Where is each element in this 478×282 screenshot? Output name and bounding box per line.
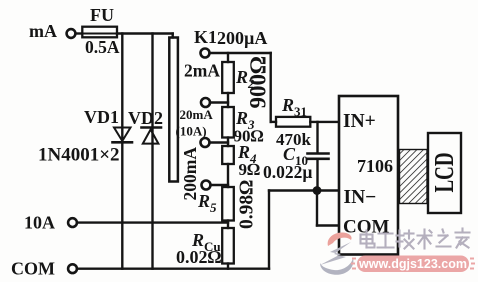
switch K1 wiper bar — [169, 38, 178, 182]
svg-text:200mA: 200mA — [180, 147, 200, 201]
wire R4-R5 junction — [227, 164, 229, 187]
wire VD2 branch vertical — [151, 34, 153, 269]
wire RCu bottom to rail — [227, 264, 229, 269]
char shu — [418, 230, 432, 249]
svg-text:0.5A: 0.5A — [85, 37, 120, 57]
char ji — [397, 231, 414, 249]
fuse FU mid line — [82, 33, 117, 35]
terminal 10A circle — [68, 218, 77, 227]
svg-text:20mA: 20mA — [180, 107, 214, 122]
svg-text:LCD: LCD — [430, 152, 460, 192]
svg-text:1N4001×2: 1N4001×2 — [38, 145, 120, 166]
wire cap to node B — [316, 159, 318, 191]
wire contact3 to R3-R4 junction — [209, 141, 228, 143]
diode VD2 (cathode up) — [142, 128, 162, 144]
wire contact1 to node A — [209, 52, 270, 54]
wire cap branch down — [316, 122, 318, 152]
watermark logo swirl — [320, 232, 353, 274]
switch contact 2mA — [201, 98, 210, 107]
display LCD box — [428, 133, 461, 213]
svg-text:900Ω: 900Ω — [246, 56, 271, 109]
svg-text:9Ω: 9Ω — [239, 160, 261, 179]
char dian — [361, 231, 375, 248]
capacitor C10 — [308, 154, 329, 159]
fuse FU body — [82, 27, 117, 38]
char gong — [378, 234, 394, 248]
svg-text:IN+: IN+ — [343, 111, 376, 132]
wire VD1 branch vertical — [121, 34, 123, 269]
svg-text:200µA: 200µA — [217, 28, 267, 48]
switch contact 200uA — [201, 49, 210, 58]
wire fuse to switch bar (top rail) — [117, 32, 173, 34]
char jia — [456, 229, 470, 248]
svg-text:0.022µ: 0.022µ — [263, 162, 312, 182]
resistor R4 — [222, 146, 234, 164]
op-amp IC 7106 box — [339, 96, 398, 255]
wire IN- horizontal — [269, 189, 338, 191]
connector hatched block — [400, 150, 428, 204]
wire node A vertical down to R31 — [270, 53, 272, 122]
resistor R5 — [222, 187, 234, 221]
wire mA terminal to fuse — [76, 32, 82, 34]
svg-text:R5: R5 — [197, 191, 217, 215]
wire node B down to COM pin — [316, 191, 318, 226]
svg-text:COM: COM — [11, 259, 55, 279]
diode VD1 (cathode down) — [113, 128, 133, 143]
wire bottom rail — [77, 268, 269, 270]
resistor RCu — [222, 228, 234, 264]
svg-text:VD2: VD2 — [128, 108, 163, 128]
wire R5-RCu junction — [227, 221, 229, 229]
resistor R3 — [222, 107, 234, 138]
svg-text:10A: 10A — [24, 213, 55, 233]
watermark url pill — [351, 256, 475, 273]
wire 10A to shunt junction — [77, 221, 228, 223]
node B junction dot — [313, 186, 322, 195]
svg-text:0.98Ω: 0.98Ω — [237, 180, 258, 229]
switch contact 10A — [201, 138, 210, 147]
wire to COM pin — [317, 224, 338, 226]
resistor R2 — [222, 62, 234, 93]
watermark text dian-gong-ji-shu-zhi-jia — [361, 229, 470, 249]
svg-text:0.02Ω: 0.02Ω — [176, 247, 222, 267]
switch contact 200mA — [202, 181, 211, 190]
resistor R31 — [276, 117, 310, 127]
svg-text:R31: R31 — [281, 95, 307, 119]
wire contact2 to R2-R3 junction — [210, 101, 228, 103]
svg-text:(10A): (10A) — [176, 124, 207, 139]
terminal COM circle — [68, 264, 77, 273]
svg-text:7106: 7106 — [357, 156, 393, 176]
wire into switch bar — [171, 34, 173, 38]
wire R2-R3 junction — [227, 93, 229, 107]
svg-text:www.dgjs123.com: www.dgjs123.com — [358, 257, 467, 271]
wire to R31 left — [271, 121, 276, 123]
wire R3-R4 junction — [227, 138, 229, 147]
svg-text:2mA: 2mA — [184, 61, 220, 81]
svg-text:IN−: IN− — [344, 187, 377, 208]
svg-text:FU: FU — [90, 5, 114, 25]
wire left vertical to bottom rail — [268, 191, 270, 269]
wire contact4 to R4-R5 junction — [210, 184, 228, 186]
wire R31 to IN+ — [310, 121, 338, 123]
svg-text:VD1: VD1 — [84, 107, 119, 127]
wire chain top vertical — [227, 53, 229, 62]
svg-text:mA: mA — [29, 21, 57, 41]
char zhi — [437, 230, 451, 247]
svg-text:K1: K1 — [194, 27, 217, 47]
terminal mA circle — [67, 29, 76, 38]
